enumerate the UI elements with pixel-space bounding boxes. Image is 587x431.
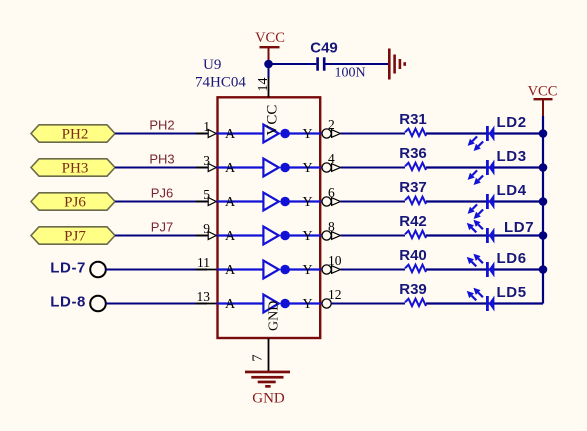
pin 12 (output Y, U9F) bubble xyxy=(322,287,342,308)
label Y (U9F) xyxy=(303,297,313,312)
connector label LD-7 xyxy=(50,260,86,277)
junction node rail row 4 xyxy=(539,231,548,240)
label C49 xyxy=(310,40,338,57)
svg-text:2: 2 xyxy=(328,117,335,132)
svg-text:1: 1 xyxy=(203,119,210,134)
svg-text:PH3: PH3 xyxy=(62,160,89,176)
LED LD3 emission arrows xyxy=(468,170,484,185)
svg-text:Y: Y xyxy=(303,195,313,210)
svg-text:VCC: VCC xyxy=(265,105,281,136)
label R36 xyxy=(399,145,427,162)
inverter U9E input lead xyxy=(217,268,263,270)
svg-text:14: 14 xyxy=(256,78,271,92)
pin 3 (input A, U9B) xyxy=(196,153,217,172)
svg-text:Y: Y xyxy=(303,297,313,312)
inverter U9F output lead xyxy=(285,302,321,304)
ground (C49, rotated) xyxy=(388,49,406,80)
label A (U9E) xyxy=(225,263,236,278)
label R31 xyxy=(399,111,427,128)
svg-text:R31: R31 xyxy=(399,111,427,128)
label A (U9F) xyxy=(225,297,236,312)
svg-text:Y: Y xyxy=(303,127,313,142)
junction node rail row 3 xyxy=(539,197,548,206)
svg-text:R36: R36 xyxy=(399,145,427,162)
svg-text:VCC: VCC xyxy=(255,30,285,46)
wire LD-7 to U9 xyxy=(106,269,207,271)
pin 8 (output Y, U9D) bubble xyxy=(322,219,340,240)
label LD7 xyxy=(504,219,534,236)
label R39 xyxy=(399,281,427,298)
port PH2 xyxy=(31,125,115,143)
net label PH2 xyxy=(149,118,174,133)
inverter U9B input lead xyxy=(217,166,263,168)
LED LD4 xyxy=(486,194,494,210)
svg-text:PJ7: PJ7 xyxy=(64,228,86,244)
inverter U9C output lead xyxy=(285,200,321,202)
label Y (U9E) xyxy=(303,263,313,278)
label A (U9C) xyxy=(225,195,236,210)
inverter U9B output lead xyxy=(285,166,321,168)
inverter U9D output lead xyxy=(285,234,321,236)
LED LD4 emission arrows xyxy=(468,204,484,219)
label LD3 xyxy=(497,148,527,165)
resistor R40 xyxy=(405,265,426,272)
svg-text:3: 3 xyxy=(203,153,210,168)
inverter bubble dot U9D xyxy=(280,231,290,241)
pin 6 (output Y, U9C) bubble xyxy=(322,185,340,206)
inverter U9F input lead xyxy=(217,302,263,304)
IC U9 body xyxy=(218,97,321,338)
value 100N xyxy=(334,66,365,81)
wire R36 to LD3 xyxy=(426,166,543,168)
wire U9 pin 10 to R40 xyxy=(340,269,405,271)
pin 5 (input A, U9C) xyxy=(196,187,217,206)
value 74HC04 xyxy=(195,75,246,91)
svg-text:R42: R42 xyxy=(399,213,427,230)
wire U9 pin 6 to R37 xyxy=(340,201,405,203)
label R40 xyxy=(399,247,427,264)
resistor R36 xyxy=(405,163,426,170)
LED LD3 xyxy=(486,160,494,176)
resistor R31 xyxy=(405,129,426,136)
wire VCC to C49 xyxy=(269,63,317,65)
junction node rail row 2 xyxy=(539,163,548,172)
svg-text:A: A xyxy=(225,195,236,210)
svg-text:LD7: LD7 xyxy=(504,219,534,236)
ground GND (bottom) xyxy=(245,371,290,388)
svg-text:PH3: PH3 xyxy=(149,152,174,167)
pin 14 (VCC, U9) xyxy=(256,64,271,97)
inverter U9D input lead xyxy=(217,234,263,236)
svg-text:R37: R37 xyxy=(399,179,427,196)
svg-text:LD4: LD4 xyxy=(497,182,527,199)
svg-text:GND: GND xyxy=(252,391,285,407)
inverter triangle U9A xyxy=(263,125,278,143)
port PJ6 xyxy=(31,193,115,211)
junction node (VCC/C49) xyxy=(264,60,273,69)
wire VCC rail (right) xyxy=(542,116,544,304)
LED LD5 xyxy=(486,296,494,312)
LED LD2 emission arrows xyxy=(468,136,484,151)
inverter bubble dot U9C xyxy=(280,197,290,207)
inverter U9A input lead xyxy=(217,132,263,134)
svg-text:LD-8: LD-8 xyxy=(50,294,86,311)
svg-text:A: A xyxy=(225,263,236,278)
hidden power pin name VCC (U9A) xyxy=(265,105,281,136)
inverter U9C input lead xyxy=(217,200,263,202)
net label PH3 xyxy=(149,152,174,167)
svg-text:13: 13 xyxy=(197,289,211,304)
svg-text:PJ6: PJ6 xyxy=(64,194,86,210)
label LD6 xyxy=(497,250,527,267)
LED LD2 xyxy=(486,126,494,142)
connector circle LD-7 xyxy=(90,262,106,278)
label Y (U9A) xyxy=(303,127,313,142)
svg-text:A: A xyxy=(225,127,236,142)
inverter triangle U9F xyxy=(263,295,278,313)
svg-text:100N: 100N xyxy=(334,66,365,81)
pin 1 (input A, U9A) xyxy=(196,119,217,138)
label R42 xyxy=(399,213,427,230)
power VCC (right) xyxy=(528,84,558,117)
pin 2 (output Y, U9A) bubble xyxy=(322,117,340,138)
svg-text:LD3: LD3 xyxy=(497,148,527,165)
wire R37 to LD4 xyxy=(426,200,543,202)
inverter triangle U9C xyxy=(263,193,278,211)
wire U9 pin 12 to R39 xyxy=(331,303,405,305)
svg-text:4: 4 xyxy=(328,151,335,166)
inverter U9A output lead xyxy=(285,132,321,134)
label A (U9A) xyxy=(225,127,236,142)
power VCC (top) xyxy=(255,30,285,64)
svg-text:10: 10 xyxy=(328,253,342,268)
resistor R39 xyxy=(405,299,426,306)
svg-text:Y: Y xyxy=(303,263,313,278)
svg-text:A: A xyxy=(225,229,236,244)
connector label LD-8 xyxy=(50,294,86,311)
label A (U9B) xyxy=(225,161,236,176)
wire PJ6 to U9 xyxy=(115,201,207,203)
inverter triangle U9D xyxy=(263,227,278,245)
pin 13 (input A, U9F) xyxy=(196,289,217,304)
wire R39 to LD5 xyxy=(426,302,543,304)
wire R42 to LD7 xyxy=(426,234,543,236)
wire PH3 to U9 xyxy=(115,167,207,169)
svg-text:U9: U9 xyxy=(203,57,221,73)
label LD4 xyxy=(497,182,527,199)
svg-text:VCC: VCC xyxy=(528,84,558,100)
svg-text:GND: GND xyxy=(267,301,282,331)
label A (U9D) xyxy=(225,229,236,244)
resistor R42 xyxy=(405,231,426,238)
label LD2 xyxy=(497,114,527,131)
wire PJ7 to U9 xyxy=(115,235,207,237)
svg-text:7: 7 xyxy=(251,355,266,362)
svg-text:5: 5 xyxy=(203,187,210,202)
svg-text:PJ6: PJ6 xyxy=(151,186,173,201)
svg-text:Y: Y xyxy=(303,229,313,244)
label R37 xyxy=(399,179,427,196)
svg-text:LD6: LD6 xyxy=(497,250,527,267)
hidden power pin name GND (U9F) xyxy=(267,301,282,331)
wire U9 pin 4 to R36 xyxy=(340,167,405,169)
svg-text:R39: R39 xyxy=(399,281,427,298)
pin 9 (input A, U9D) xyxy=(196,221,217,240)
pin 4 (output Y, U9B) bubble xyxy=(322,151,340,172)
net label PJ7 xyxy=(151,220,173,235)
svg-text:LD2: LD2 xyxy=(497,114,527,131)
LED LD7 emission arrows xyxy=(467,220,483,233)
connector circle LD-8 xyxy=(90,296,106,312)
svg-text:LD-7: LD-7 xyxy=(50,260,86,277)
svg-text:11: 11 xyxy=(197,255,210,270)
label Y (U9D) xyxy=(303,229,313,244)
pin 7 (GND, U9) xyxy=(251,338,269,371)
svg-text:6: 6 xyxy=(328,185,335,200)
pin 10 (output Y, U9E) bubble xyxy=(322,253,342,274)
wire C49 to ground xyxy=(326,63,389,65)
port PH3 xyxy=(31,159,115,177)
svg-text:Y: Y xyxy=(303,161,313,176)
wire LD-8 to U9 xyxy=(106,303,207,305)
svg-text:A: A xyxy=(225,297,236,312)
label Y (U9C) xyxy=(303,195,313,210)
wire R40 to LD6 xyxy=(426,268,543,270)
svg-text:74HC04: 74HC04 xyxy=(195,75,246,91)
LED LD6 xyxy=(486,262,494,278)
inverter bubble dot U9E xyxy=(280,265,290,275)
net label PJ6 xyxy=(151,186,173,201)
svg-text:C49: C49 xyxy=(310,40,338,57)
svg-text:PJ7: PJ7 xyxy=(151,220,173,235)
wire U9 pin 8 to R42 xyxy=(340,235,405,237)
LED LD7 xyxy=(486,228,494,244)
inverter triangle U9B xyxy=(263,159,278,177)
label GND xyxy=(252,391,285,407)
label LD5 xyxy=(497,284,527,301)
wire PH2 to U9 xyxy=(115,133,207,135)
inverter U9E output lead xyxy=(285,268,321,270)
wire U9 pin 2 to R31 xyxy=(340,133,405,135)
inverter bubble dot U9F xyxy=(280,299,290,309)
svg-text:9: 9 xyxy=(203,221,210,236)
svg-text:PH2: PH2 xyxy=(149,118,174,133)
capacitor C49 xyxy=(316,57,325,70)
junction node rail row 5 xyxy=(539,265,548,274)
designator U9 xyxy=(203,57,221,73)
svg-text:PH2: PH2 xyxy=(62,126,89,142)
wire R31 to LD2 xyxy=(426,132,543,134)
inverter bubble dot U9A xyxy=(280,129,290,139)
svg-text:A: A xyxy=(225,161,236,176)
svg-text:12: 12 xyxy=(328,287,342,302)
pin 11 (input A, U9E) xyxy=(196,255,217,270)
resistor R37 xyxy=(405,197,426,204)
LED LD6 emission arrows xyxy=(467,254,483,267)
svg-text:8: 8 xyxy=(328,219,335,234)
svg-text:LD5: LD5 xyxy=(497,284,527,301)
inverter triangle U9E xyxy=(263,261,278,279)
port PJ7 xyxy=(31,227,115,245)
svg-text:R40: R40 xyxy=(399,247,427,264)
junction node rail row 1 xyxy=(539,129,548,138)
inverter bubble dot U9B xyxy=(280,163,290,173)
label Y (U9B) xyxy=(303,161,313,176)
LED LD5 emission arrows xyxy=(467,288,483,301)
